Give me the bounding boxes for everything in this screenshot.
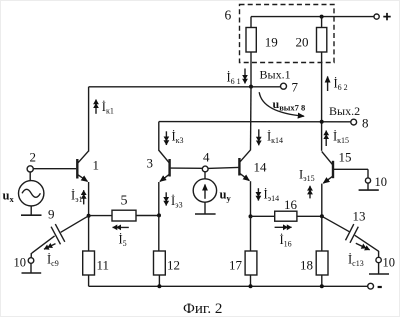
svg-text:İк15: İк15 bbox=[333, 130, 349, 146]
svg-text:İ6 2: İ6 2 bbox=[334, 77, 348, 93]
svg-text:Вых.1: Вых.1 bbox=[260, 67, 291, 81]
svg-text:3: 3 bbox=[147, 156, 154, 171]
svg-text:18: 18 bbox=[300, 258, 313, 273]
arrow ie14 bbox=[257, 188, 259, 200]
transistor Q14 bbox=[239, 150, 250, 181]
bottom rail bbox=[89, 285, 368, 287]
arrow ie3 bbox=[165, 192, 167, 205]
svg-text:14: 14 bbox=[254, 160, 268, 175]
svg-text:İэ3: İэ3 bbox=[171, 194, 183, 210]
arrow ik15 bbox=[325, 131, 327, 147]
arrow ic13 bbox=[356, 243, 370, 250]
node em3 bbox=[157, 213, 161, 217]
svg-text:12: 12 bbox=[167, 258, 180, 273]
svg-text:19: 19 bbox=[265, 35, 278, 50]
ground 10 bottom right bbox=[369, 273, 389, 275]
wire Vyx2 bbox=[159, 121, 351, 123]
capacitor 9 bbox=[31, 216, 88, 258]
svg-text:15: 15 bbox=[339, 150, 352, 165]
resistor 20 bbox=[321, 17, 323, 28]
node em14 bbox=[249, 214, 253, 218]
arrow ie1 bbox=[83, 190, 85, 204]
resistor 17 bbox=[250, 216, 252, 251]
svg-text:İ16: İ16 bbox=[280, 233, 292, 249]
arrow i16 bbox=[275, 226, 292, 228]
svg-text:8: 8 bbox=[362, 116, 369, 131]
svg-text:İ6 1: İ6 1 bbox=[227, 71, 241, 87]
terminal 10 left bbox=[28, 258, 34, 264]
node R12 bottom bbox=[157, 284, 161, 288]
svg-text:6: 6 bbox=[225, 8, 232, 23]
node em15 bbox=[320, 214, 324, 218]
dashed box 6 bbox=[240, 5, 335, 63]
svg-text:11: 11 bbox=[97, 258, 110, 273]
node R20 top bbox=[320, 15, 324, 19]
svg-text:İс13: İс13 bbox=[348, 253, 364, 269]
arrow ik1 bbox=[95, 100, 97, 114]
svg-text:İэ1: İэ1 bbox=[71, 189, 83, 205]
wire emitter Q14 bbox=[250, 181, 252, 216]
node 4 bbox=[202, 166, 208, 172]
terminal minus bbox=[368, 283, 374, 289]
svg-text:Фиг. 2: Фиг. 2 bbox=[183, 301, 222, 317]
wire collector Q1 bbox=[88, 87, 90, 152]
terminal 10 upper right bbox=[365, 178, 370, 183]
transistor Q3 bbox=[159, 150, 203, 181]
wire Vyx1 bbox=[89, 86, 281, 88]
node Vyx2 bbox=[320, 120, 324, 124]
terminal 7 bbox=[281, 83, 287, 89]
resistor 18 bbox=[321, 216, 323, 251]
resistor 12 bbox=[158, 215, 160, 251]
arrow uvyx78 bbox=[259, 92, 304, 116]
terminal 2 bbox=[27, 166, 33, 172]
node R17 bottom bbox=[249, 284, 253, 288]
svg-text:uy: uy bbox=[220, 188, 232, 204]
label + bbox=[383, 13, 390, 20]
ground 10 upper right bbox=[359, 189, 379, 191]
arrow ic9 bbox=[44, 244, 56, 250]
svg-text:ux: ux bbox=[3, 189, 15, 205]
arrow ik3 bbox=[165, 131, 167, 145]
transistor Q1 bbox=[34, 151, 89, 182]
terminal 10 bottom right bbox=[376, 257, 381, 262]
terminal 8 bbox=[351, 119, 357, 125]
svg-text:10: 10 bbox=[383, 256, 396, 270]
terminal + bbox=[374, 14, 379, 19]
svg-text:İк3: İк3 bbox=[172, 130, 184, 146]
svg-text:17: 17 bbox=[229, 258, 243, 273]
wire emitter Q3 bbox=[158, 182, 160, 215]
capacitor 13 bbox=[322, 216, 379, 257]
resistor 11 bbox=[88, 216, 90, 251]
node 61 bbox=[249, 85, 253, 89]
arrow i62 bbox=[327, 77, 329, 92]
svg-text:16: 16 bbox=[284, 197, 298, 212]
resistor 19 bbox=[250, 17, 252, 28]
svg-text:İк14: İк14 bbox=[267, 130, 283, 146]
svg-text:İк1: İк1 bbox=[102, 100, 114, 116]
svg-text:5: 5 bbox=[121, 194, 128, 209]
ground uy bbox=[195, 213, 216, 215]
svg-text:uвых7 8: uвых7 8 bbox=[273, 97, 306, 113]
wire collector Q14 bbox=[250, 87, 253, 151]
resistor 5 bbox=[89, 215, 112, 217]
wire base Q14 bbox=[208, 167, 239, 168]
wire collector Q3 bbox=[158, 122, 160, 151]
source uy bbox=[193, 171, 216, 214]
arrow i61 bbox=[244, 69, 246, 84]
arrow i5 bbox=[113, 226, 129, 228]
svg-text:4: 4 bbox=[203, 150, 210, 165]
arrow ie15 bbox=[309, 186, 311, 199]
svg-text:2: 2 bbox=[30, 150, 37, 165]
svg-text:10: 10 bbox=[375, 175, 388, 189]
label minus bbox=[378, 286, 382, 288]
wire base Q15 down bbox=[367, 169, 369, 178]
svg-text:İс9: İс9 bbox=[47, 253, 59, 269]
arrow ik14 bbox=[258, 129, 260, 145]
svg-text:10: 10 bbox=[14, 256, 27, 270]
svg-text:13: 13 bbox=[353, 209, 366, 224]
svg-text:9: 9 bbox=[48, 207, 55, 222]
transistor Q15 bbox=[322, 151, 368, 183]
wire emitter Q1 bbox=[88, 182, 90, 216]
svg-text:Iэ15: Iэ15 bbox=[299, 168, 315, 184]
node em1 bbox=[87, 214, 91, 218]
svg-text:İ5: İ5 bbox=[119, 233, 127, 249]
svg-text:7: 7 bbox=[292, 80, 299, 95]
ground ux bbox=[21, 214, 42, 216]
source ux bbox=[19, 172, 44, 215]
node R18 bottom bbox=[320, 284, 324, 288]
resistor 16 bbox=[251, 215, 275, 217]
wire emitter Q15 bbox=[321, 184, 323, 217]
svg-text:20: 20 bbox=[296, 35, 309, 50]
svg-text:Вых.2: Вых.2 bbox=[329, 104, 360, 118]
ground 10 left bbox=[22, 272, 42, 274]
svg-text:1: 1 bbox=[93, 158, 100, 173]
wire +rail top bbox=[251, 16, 374, 18]
svg-text:İэ14: İэ14 bbox=[264, 188, 280, 204]
